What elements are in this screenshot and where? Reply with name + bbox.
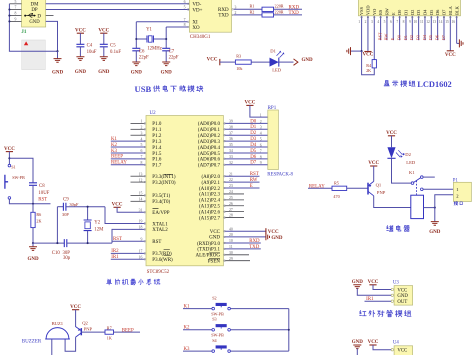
svg-text:VCC: VCC (210, 230, 221, 235)
svg-text:4: 4 (260, 132, 262, 136)
resistor R1 220R (262, 7, 274, 11)
svg-text:22pF: 22pF (139, 56, 149, 61)
wire LCD pin 6 (392, 16, 394, 40)
power VCC (reset) (6, 151, 13, 153)
svg-text:36: 36 (229, 137, 233, 141)
wire LCD pin 9 (411, 16, 413, 40)
svg-text:10: 10 (414, 20, 418, 24)
svg-text:VCC: VCC (70, 305, 81, 310)
J1 left shield pin stubs and numbers (9, 3, 21, 5)
svg-text:D: D (37, 14, 41, 19)
svg-text:7: 7 (15, 6, 17, 10)
svg-text:D5: D5 (429, 9, 434, 15)
wire P0.5 to RP1 (net D5) (225, 152, 268, 154)
switch S2 SW-PB (212, 307, 215, 310)
pin stub (pin 14) (131, 200, 145, 202)
power VCC for RP1 (246, 104, 253, 106)
svg-text:D4: D4 (422, 34, 427, 40)
svg-text:RST: RST (377, 32, 382, 40)
svg-text:P1: P1 (453, 178, 459, 183)
connector J1 USB socket (22, 0, 46, 27)
svg-text:4: 4 (377, 20, 379, 24)
wire LCD pin 12 (430, 16, 432, 40)
svg-text:P1.6: P1.6 (152, 158, 162, 163)
svg-text:GND: GND (429, 230, 441, 235)
svg-text:GND: GND (131, 71, 143, 76)
resistor R3 10k (235, 60, 251, 64)
wire LCD pin 7 (399, 16, 401, 40)
resistor R6 2K (32, 204, 34, 213)
svg-text:11: 11 (420, 20, 424, 24)
wire P2.1 net RW (225, 181, 260, 183)
svg-text:D4: D4 (423, 9, 428, 15)
svg-text:8: 8 (403, 20, 405, 24)
svg-text:33: 33 (229, 155, 233, 159)
svg-text:TXD: TXD (249, 245, 260, 250)
junction dots on shield bus (8, 8, 10, 10)
svg-text:STC89C52: STC89C52 (147, 270, 170, 275)
svg-text:C6: C6 (139, 49, 145, 54)
svg-text:(A10)P2.2: (A10)P2.2 (199, 187, 220, 192)
svg-text:XTAL2: XTAL2 (152, 228, 168, 233)
svg-text:(A8)P2.0: (A8)P2.0 (202, 175, 221, 180)
wire R4 bottom loop to VSS (362, 51, 375, 75)
pin stub P2.3 (225, 193, 244, 195)
svg-text:4: 4 (140, 137, 142, 141)
svg-text:6: 6 (140, 149, 142, 153)
svg-text:GND: GND (27, 257, 39, 262)
ground symbol (relay) (431, 222, 439, 226)
svg-text:R1: R1 (250, 4, 255, 9)
wire VCC to RP1 pin1 (250, 105, 268, 117)
svg-text:13: 13 (433, 20, 437, 24)
svg-text:D1: D1 (250, 125, 257, 130)
svg-text:PSEN: PSEN (208, 260, 221, 265)
svg-text:7: 7 (396, 20, 398, 24)
svg-text:20: 20 (229, 233, 233, 237)
svg-text:VCC: VCC (368, 340, 379, 345)
svg-text:S3: S3 (212, 317, 216, 322)
wire OUT (U3) (365, 300, 392, 302)
ground under C7 (162, 62, 170, 66)
svg-text:17: 17 (139, 250, 143, 254)
svg-text:RXD: RXD (289, 5, 300, 10)
svg-text:8: 8 (140, 161, 142, 165)
svg-text:3: 3 (260, 126, 262, 130)
svg-text:VCC: VCC (386, 131, 397, 136)
svg-text:K1: K1 (409, 170, 415, 175)
power VCC (LCD VDD) (364, 51, 371, 53)
pin stub ALE/PROG (225, 254, 249, 256)
svg-text:S2: S2 (212, 295, 216, 300)
svg-text:E: E (250, 184, 253, 189)
wire LCD pin 15 (449, 16, 451, 51)
wire Q2 collector to buzzer (65, 337, 76, 351)
svg-text:30: 30 (229, 251, 233, 255)
resistor pack RP1 RESPACK-8 (268, 110, 279, 170)
wire TXD out (234, 14, 262, 16)
svg-text:D3: D3 (416, 9, 421, 15)
svg-text:GND: GND (302, 58, 314, 63)
capacitor C9 30pF (57, 206, 63, 208)
svg-text:VSS: VSS (359, 6, 364, 15)
svg-text:VCC: VCC (368, 280, 379, 285)
svg-text:31: 31 (139, 209, 143, 213)
switch S3 SW-PB (212, 329, 215, 332)
svg-text:12M: 12M (94, 228, 104, 233)
svg-text:40: 40 (229, 227, 233, 231)
svg-text:GND: GND (98, 70, 110, 75)
svg-text:(AD0)P0.0: (AD0)P0.0 (198, 122, 221, 127)
wire VCC node (8, 152, 10, 165)
wire S3 to bus (230, 329, 288, 331)
buzzer BUZ1 (46, 328, 69, 339)
svg-text:GND: GND (52, 70, 64, 75)
wire junction to ground (434, 208, 436, 222)
svg-text:U2: U2 (150, 111, 157, 116)
svg-text:VCC: VCC (268, 230, 279, 235)
svg-text:R5: R5 (334, 181, 339, 186)
svg-text:16: 16 (452, 20, 456, 24)
wire XI to crystal (136, 21, 187, 23)
wire to RXD label (274, 8, 303, 10)
wire LCD pin 4 (380, 16, 382, 40)
wire key common bus (288, 309, 290, 352)
svg-text:LCD1602: LCD1602 (417, 80, 451, 89)
svg-text:1: 1 (140, 120, 142, 124)
wire K2 to S3 (183, 329, 212, 331)
svg-text:RW: RW (385, 7, 390, 15)
svg-text:(A12)P2.4: (A12)P2.4 (199, 199, 220, 204)
svg-text:2: 2 (260, 120, 262, 124)
svg-text:30P: 30P (62, 212, 69, 217)
svg-text:13: 13 (139, 172, 143, 176)
svg-text:BUZ1: BUZ1 (52, 321, 64, 326)
wire P0.4 to RP1 (net D4) (225, 146, 268, 148)
title MCU minimal system (107, 279, 112, 285)
svg-text:RST: RST (113, 237, 122, 242)
pin stub P1.0 (131, 122, 145, 124)
svg-text:VCC: VCC (397, 288, 407, 293)
svg-text:D2: D2 (405, 152, 411, 157)
svg-text:C10: C10 (52, 251, 61, 256)
wire GND to U4 (357, 349, 391, 355)
svg-text:8: 8 (260, 155, 262, 159)
svg-text:D2: D2 (410, 10, 415, 15)
wire junction to P1 pin2 (435, 195, 454, 208)
wire P2.0 net RST (225, 175, 260, 177)
capacitor C7 (162, 48, 170, 51)
svg-text:470: 470 (333, 194, 339, 199)
power VCC (Q1 emitter) (370, 165, 377, 167)
wire LCD pin 8 (405, 16, 407, 40)
svg-text:39: 39 (229, 120, 233, 124)
ground symbol (reset) (32, 243, 34, 247)
svg-text:VCC: VCC (75, 28, 86, 33)
svg-text:14: 14 (139, 198, 143, 202)
svg-text:RW: RW (250, 178, 258, 183)
wire XTAL2 (112, 229, 145, 243)
svg-text:VCC: VCC (368, 161, 379, 166)
svg-text:RS: RS (378, 9, 383, 15)
relay mechanical link (dashed) (416, 181, 418, 195)
svg-text:(RXD)P3.0: (RXD)P3.0 (197, 242, 220, 247)
svg-text:D2: D2 (409, 35, 414, 40)
svg-text:3: 3 (235, 5, 237, 9)
USB connector body (gray footprint block) (22, 40, 46, 70)
svg-text:(TXD)P3.1: (TXD)P3.1 (197, 248, 220, 253)
svg-text:K1: K1 (111, 137, 118, 142)
svg-text:P3.7(RD): P3.7(RD) (152, 252, 172, 257)
svg-text:1: 1 (260, 113, 262, 117)
wire LCD pin 10 (418, 16, 420, 40)
svg-text:D2: D2 (250, 131, 257, 136)
svg-text:22pF: 22pF (169, 56, 179, 61)
svg-text:C4: C4 (87, 44, 93, 49)
svg-text:1K: 1K (107, 336, 112, 341)
power VCC for EA/VPP (114, 206, 121, 208)
svg-text:(A11)P2.3: (A11)P2.3 (199, 193, 220, 198)
svg-text:U4: U4 (393, 341, 399, 346)
wire XI node vertical (135, 22, 137, 49)
svg-text:(A13)P2.5: (A13)P2.5 (199, 205, 220, 210)
svg-text:SW-PB: SW-PB (12, 175, 25, 180)
wire R3 to D1 (251, 61, 269, 63)
svg-text:35: 35 (229, 143, 233, 147)
svg-text:GND: GND (352, 340, 364, 345)
svg-text:10: 10 (229, 239, 233, 243)
svg-text:P1.1: P1.1 (152, 128, 162, 133)
crystal Y1 12MHz (136, 38, 147, 40)
svg-text:VCC: VCC (207, 57, 218, 62)
svg-text:VCC: VCC (4, 147, 15, 152)
LED D2 (391, 136, 393, 148)
svg-text:J1: J1 (21, 29, 27, 35)
wire net K2 to P1.4 (111, 146, 145, 148)
svg-text:6: 6 (390, 20, 392, 24)
svg-text:D1: D1 (403, 35, 408, 40)
svg-text:P1.5: P1.5 (152, 152, 162, 157)
wire XO node vertical (165, 27, 167, 48)
svg-text:15: 15 (445, 20, 449, 24)
svg-text:(A15)P2.7: (A15)P2.7 (199, 216, 220, 221)
svg-text:RST: RST (250, 172, 259, 177)
ground under C4 (76, 57, 84, 61)
svg-text:RST: RST (152, 240, 161, 245)
svg-text:32: 32 (229, 161, 233, 165)
wire VCC to R3 (220, 61, 236, 63)
wire upper throw stub (423, 176, 435, 178)
svg-text:(AD3)P0.3: (AD3)P0.3 (198, 140, 221, 145)
svg-text:GND: GND (75, 70, 87, 75)
svg-text:RXD: RXD (218, 8, 229, 13)
svg-text:19: 19 (139, 220, 143, 224)
wire GND pin 20 (225, 236, 266, 238)
wire LCD pin 14 (443, 16, 445, 40)
svg-text:RST: RST (38, 197, 47, 202)
wire P0.3 to RP1 (net D3) (225, 140, 268, 142)
svg-text:9: 9 (260, 161, 262, 165)
svg-text:5: 5 (15, 0, 17, 4)
svg-text:D3: D3 (415, 35, 420, 40)
svg-text:USB: USB (135, 84, 152, 94)
capacitor C6 (132, 48, 140, 51)
svg-text:37: 37 (229, 131, 233, 135)
wire P3.0 RXD (225, 242, 261, 244)
resistor R7 1K (105, 330, 114, 334)
svg-text:6: 6 (260, 143, 262, 147)
wire net K1 to P1.3 (111, 140, 145, 142)
wire net IR2 to P3.7 (111, 252, 145, 254)
wire lower throw to P1 pin1 (423, 188, 453, 190)
svg-text:S1: S1 (11, 165, 15, 170)
crystal Y2 12M (87, 207, 89, 220)
svg-text:U3: U3 (393, 280, 399, 285)
wire collector to relay coil (374, 196, 411, 208)
svg-text:VD+: VD+ (192, 8, 202, 13)
svg-text:LED: LED (272, 68, 282, 73)
svg-text:2: 2 (140, 126, 142, 130)
wire P2.2 net E (225, 187, 260, 189)
svg-text:34: 34 (229, 149, 233, 153)
power port VCC (U2) (265, 228, 267, 234)
svg-text:P1.7: P1.7 (152, 164, 162, 169)
svg-text:5: 5 (260, 138, 262, 142)
svg-text:RELAY: RELAY (111, 161, 127, 166)
wire to TXD label (274, 14, 303, 16)
pin stub (pin 15) (131, 194, 145, 196)
svg-text:6: 6 (184, 0, 186, 4)
svg-text:R7: R7 (107, 325, 112, 330)
svg-text:D1: D1 (404, 10, 409, 15)
svg-text:9: 9 (15, 18, 17, 22)
svg-text:5: 5 (384, 20, 386, 24)
wire net IR1 to P3.6 (111, 258, 145, 260)
svg-text:8: 8 (15, 12, 17, 16)
svg-text:(AD1)P0.1: (AD1)P0.1 (198, 128, 221, 133)
resistor R4 2K (372, 60, 376, 68)
svg-text:15: 15 (139, 192, 143, 196)
svg-text:RXD: RXD (249, 239, 260, 244)
label interface (454, 201, 458, 205)
svg-text:C9: C9 (63, 198, 69, 203)
svg-text:Q1: Q1 (376, 183, 382, 188)
pin stub P1.2 (131, 134, 145, 136)
svg-text:RP1: RP1 (268, 106, 277, 111)
wire VCC to emitter (373, 166, 375, 181)
svg-text:(AD7)P0.7: (AD7)P0.7 (198, 164, 221, 169)
svg-text:K3: K3 (111, 149, 118, 154)
wire LCD pin 3 (373, 16, 375, 60)
transistor Q2 PNP (80, 328, 82, 335)
wire to C8 (9, 158, 33, 183)
transistor Q1 PNP (367, 183, 369, 195)
relay contact K1 (411, 182, 414, 185)
wire P0.7 to RP1 (net D7) (225, 164, 268, 166)
svg-text:26: 26 (229, 202, 233, 206)
wire net BEEP to P1.6 (111, 158, 145, 160)
svg-text:16: 16 (139, 256, 143, 260)
pin stub P2.4 (225, 199, 244, 201)
wire LCD pin 1 (361, 16, 363, 51)
pin stub P2.6 (225, 211, 244, 213)
resistor R5 470 (332, 186, 347, 190)
svg-text:IR2: IR2 (111, 249, 119, 254)
svg-text:RESPACK-8: RESPACK-8 (267, 173, 293, 178)
wire coil to junction (424, 207, 435, 209)
wire VSS to ground (351, 50, 362, 52)
svg-text:2K: 2K (366, 68, 371, 73)
switch S1 SW-PB (8, 164, 11, 167)
power VCC (D2) (388, 135, 395, 137)
svg-text:EA/VPP: EA/VPP (152, 211, 169, 216)
wire ground rail to C10 (33, 242, 64, 244)
svg-text:VDD: VDD (366, 5, 371, 15)
svg-text:30p: 30p (63, 256, 71, 261)
wire net RELAY to P1.7 (111, 164, 145, 166)
svg-text:30pF: 30pF (69, 202, 79, 207)
svg-text:28: 28 (229, 214, 233, 218)
wire LCD pin 11 (424, 16, 426, 40)
svg-text:D6: D6 (435, 9, 440, 15)
wire P0.1 to RP1 (net D1) (225, 128, 268, 130)
wire net K3 to P1.5 (111, 152, 145, 154)
svg-text:0.1uF: 0.1uF (110, 50, 121, 55)
resistor R2 220R (262, 13, 274, 17)
svg-text:C7: C7 (169, 49, 175, 54)
pin stub P2.5 (225, 205, 244, 207)
svg-text:XO: XO (192, 26, 200, 31)
svg-text:21: 21 (229, 172, 233, 176)
svg-text:VCC: VCC (445, 53, 456, 58)
switch S4 SW-PB (212, 350, 215, 353)
wire DP to CH340G VD+ (46, 9, 190, 11)
svg-text:D5: D5 (250, 149, 257, 154)
svg-text:24: 24 (229, 190, 233, 194)
svg-text:RW: RW (384, 33, 389, 41)
svg-text:27: 27 (229, 208, 233, 212)
svg-text:D4: D4 (250, 143, 257, 148)
svg-text:D6: D6 (434, 34, 439, 40)
wire LCD pin 16 (456, 16, 458, 44)
wire K1 to S2 (183, 308, 212, 310)
power VCC (LCD BLA) (447, 50, 454, 52)
wire S1 bottom (9, 199, 33, 204)
svg-text:D0: D0 (250, 119, 257, 124)
svg-text:Y2: Y2 (94, 221, 100, 226)
svg-text:5: 5 (184, 6, 186, 10)
svg-text:VD-: VD- (192, 3, 201, 8)
svg-text:DP: DP (31, 8, 38, 13)
svg-text:VCC: VCC (112, 203, 123, 208)
svg-text:ALE/PROG: ALE/PROG (196, 254, 221, 259)
svg-text:P3.3(INT1): P3.3(INT1) (152, 175, 176, 180)
LED D1 (270, 58, 279, 67)
svg-text:OUT: OUT (397, 300, 407, 305)
svg-text:GND: GND (29, 20, 40, 25)
wire K3 to S4 (183, 350, 212, 352)
wire R7 to BEEP (114, 331, 141, 333)
svg-text:23: 23 (229, 184, 233, 188)
pin stub D of J1 (46, 15, 54, 17)
buzzer pin to bottom edge (51, 339, 53, 355)
svg-text:(AD5)P0.5: (AD5)P0.5 (198, 152, 221, 157)
wire RST to chip (112, 240, 145, 242)
wire D2 to relay contact (392, 158, 412, 183)
svg-text:GND: GND (271, 236, 283, 241)
svg-text:38: 38 (229, 125, 233, 129)
svg-text:D6: D6 (250, 155, 257, 160)
